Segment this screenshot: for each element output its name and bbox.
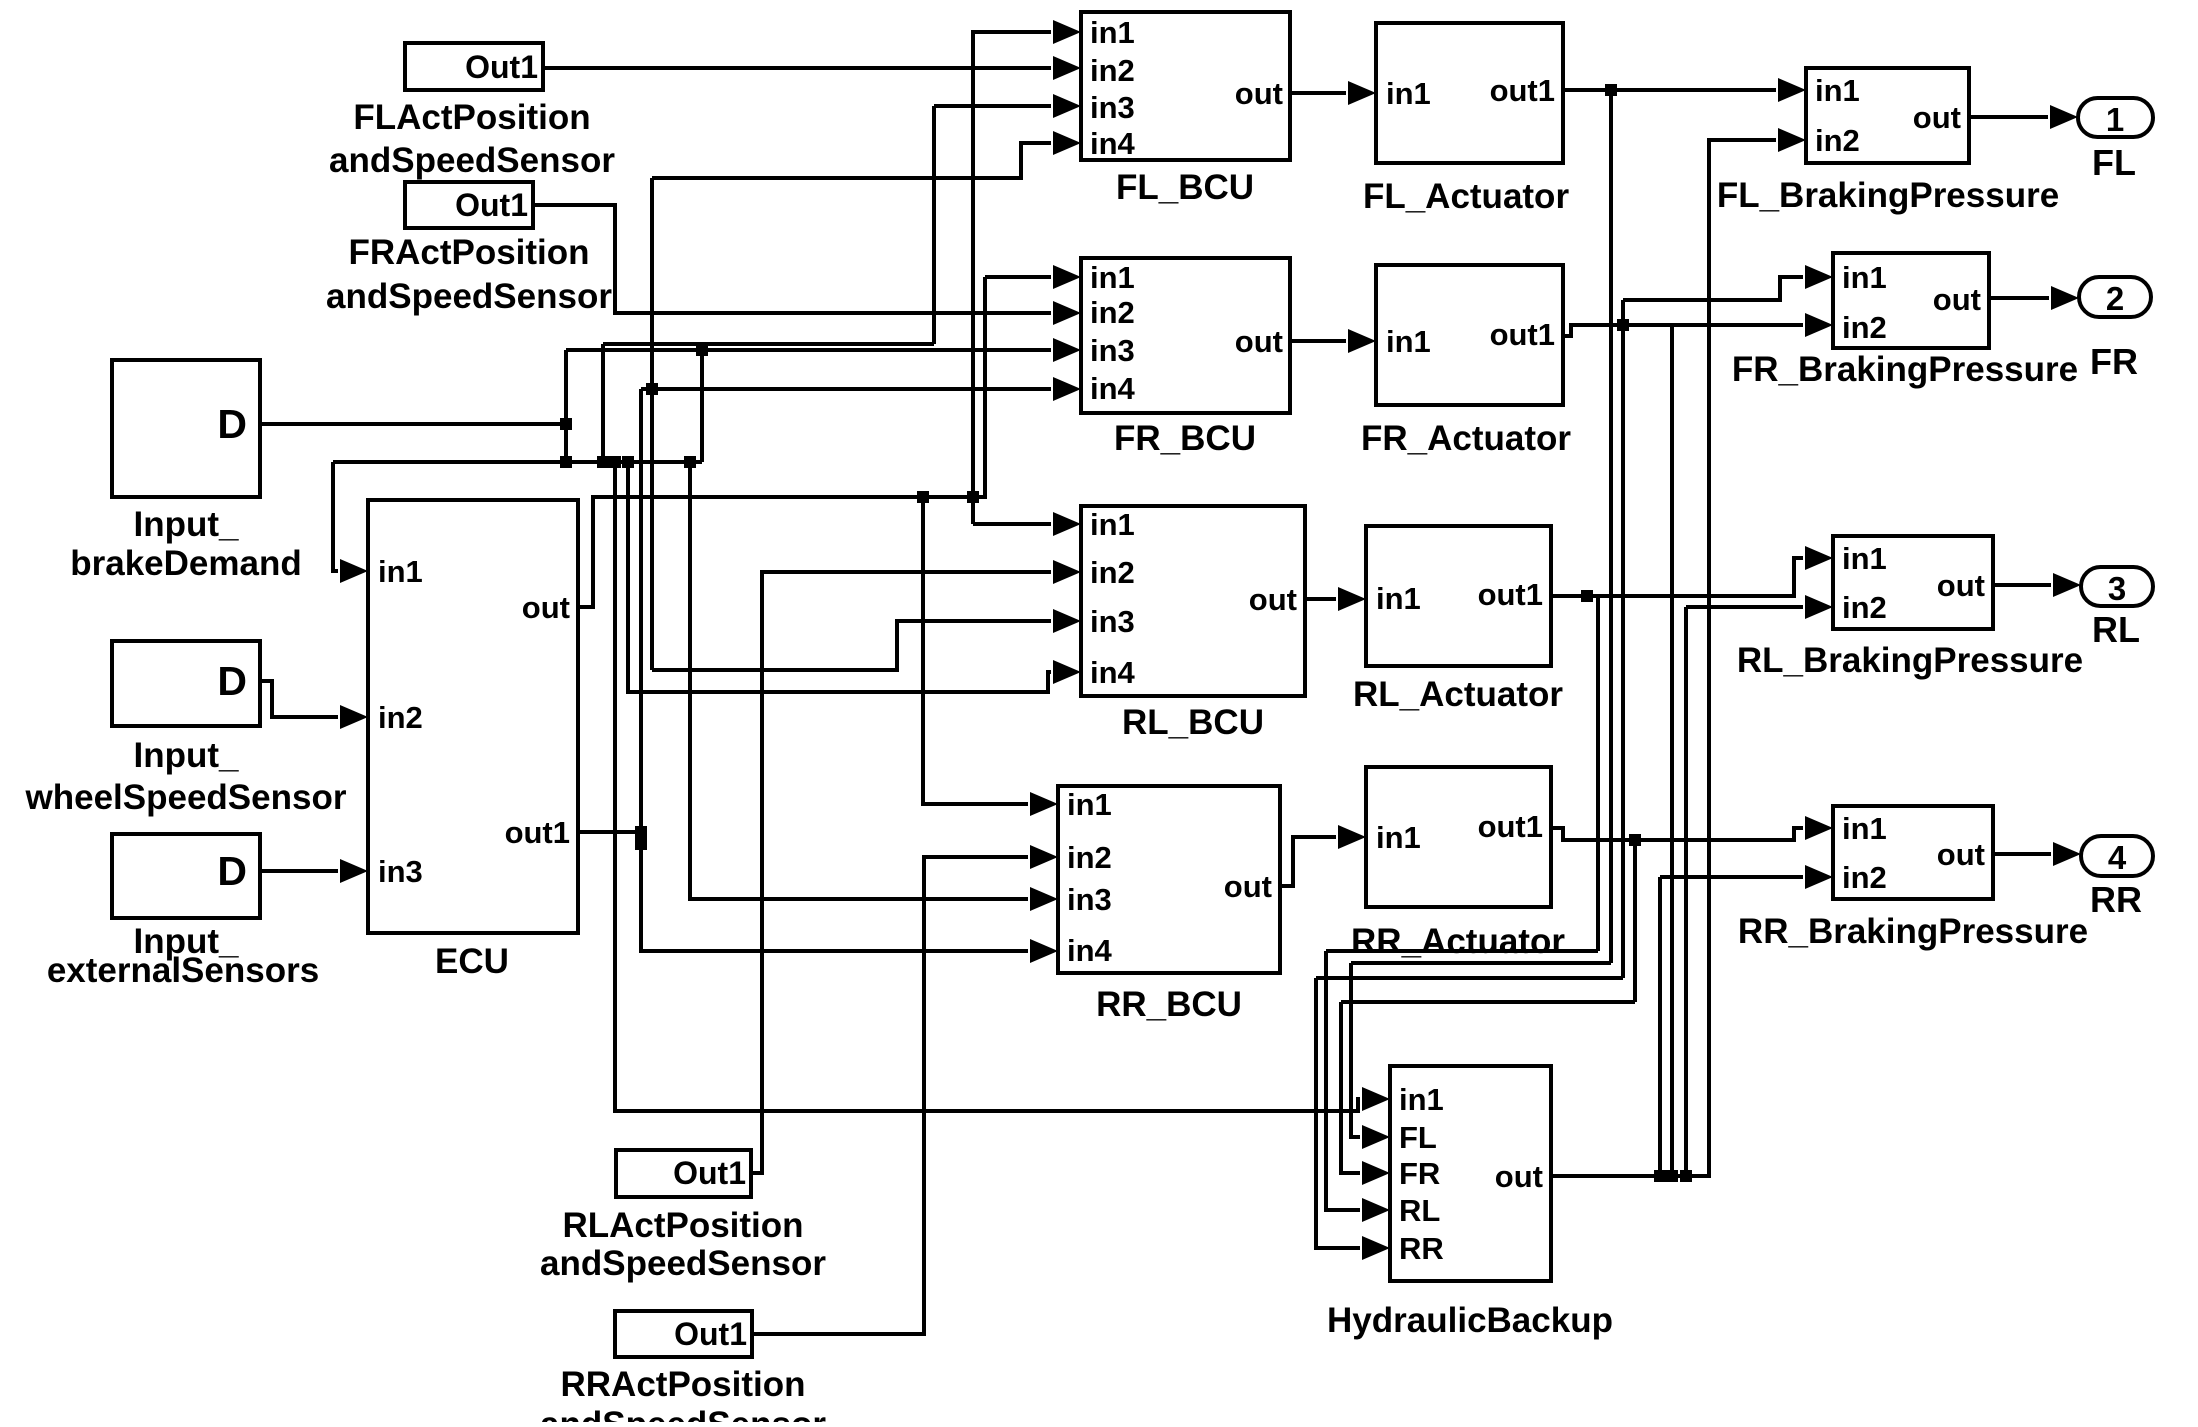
svg-text:in4: in4 xyxy=(1090,371,1136,406)
svg-text:FL_Actuator: FL_Actuator xyxy=(1363,177,1570,216)
svg-text:FL: FL xyxy=(2092,142,2136,183)
svg-text:in2: in2 xyxy=(1090,295,1135,330)
svg-text:RRActPosition: RRActPosition xyxy=(561,1365,806,1404)
svg-text:FRActPosition: FRActPosition xyxy=(348,233,589,272)
svg-text:in4: in4 xyxy=(1067,933,1113,968)
svg-text:in3: in3 xyxy=(1090,333,1135,368)
svg-text:D: D xyxy=(217,401,247,447)
svg-text:out: out xyxy=(1235,324,1283,359)
svg-text:D: D xyxy=(217,848,247,894)
svg-text:FL_BCU: FL_BCU xyxy=(1116,168,1254,207)
svg-text:FLActPosition: FLActPosition xyxy=(353,98,590,137)
svg-text:in2: in2 xyxy=(1067,840,1112,875)
svg-text:out: out xyxy=(522,590,570,625)
svg-text:RL: RL xyxy=(1399,1193,1440,1228)
svg-text:in1: in1 xyxy=(1090,507,1135,542)
svg-text:in1: in1 xyxy=(1842,541,1887,576)
svg-text:in1: in1 xyxy=(1090,260,1135,295)
svg-text:3: 3 xyxy=(2108,570,2126,607)
svg-text:FR: FR xyxy=(2090,341,2138,382)
svg-text:in2: in2 xyxy=(378,700,423,735)
svg-text:in2: in2 xyxy=(1842,590,1887,625)
svg-text:in3: in3 xyxy=(1090,90,1135,125)
svg-text:out: out xyxy=(1249,582,1297,617)
svg-text:RL_BCU: RL_BCU xyxy=(1122,703,1264,742)
svg-text:in1: in1 xyxy=(1090,15,1135,50)
svg-text:RR_BrakingPressure: RR_BrakingPressure xyxy=(1738,912,2088,951)
svg-text:andSpeedSensor: andSpeedSensor xyxy=(329,141,615,180)
svg-text:andSpeedSensor: andSpeedSensor xyxy=(326,277,612,316)
svg-text:in2: in2 xyxy=(1090,555,1135,590)
svg-text:FR_BCU: FR_BCU xyxy=(1114,419,1256,458)
svg-text:Out1: Out1 xyxy=(465,49,538,85)
svg-text:Out1: Out1 xyxy=(674,1316,747,1352)
svg-text:brakeDemand: brakeDemand xyxy=(70,544,301,583)
svg-text:in4: in4 xyxy=(1090,126,1136,161)
svg-text:out: out xyxy=(1913,100,1961,135)
svg-text:FL: FL xyxy=(1399,1120,1437,1155)
svg-text:out1: out1 xyxy=(505,815,570,850)
svg-text:in3: in3 xyxy=(1090,604,1135,639)
svg-text:out: out xyxy=(1937,837,1985,872)
svg-text:in1: in1 xyxy=(1067,787,1112,822)
svg-text:Input_: Input_ xyxy=(134,505,240,544)
svg-text:RL_Actuator: RL_Actuator xyxy=(1353,675,1563,714)
svg-text:out: out xyxy=(1933,282,1981,317)
svg-text:in2: in2 xyxy=(1815,123,1860,158)
svg-text:in1: in1 xyxy=(1399,1082,1444,1117)
svg-text:ECU: ECU xyxy=(435,942,509,981)
svg-text:out1: out1 xyxy=(1478,809,1543,844)
svg-text:in3: in3 xyxy=(1067,882,1112,917)
svg-text:in1: in1 xyxy=(1386,76,1431,111)
svg-text:Input_: Input_ xyxy=(134,736,240,775)
svg-text:HydraulicBackup: HydraulicBackup xyxy=(1327,1301,1613,1340)
svg-text:Out1: Out1 xyxy=(455,187,528,223)
svg-text:out: out xyxy=(1224,869,1272,904)
svg-text:wheelSpeedSensor: wheelSpeedSensor xyxy=(25,778,347,817)
svg-text:out1: out1 xyxy=(1478,577,1543,612)
svg-text:in1: in1 xyxy=(1842,260,1887,295)
svg-text:in1: in1 xyxy=(378,554,423,589)
svg-text:in1: in1 xyxy=(1815,73,1860,108)
svg-text:out: out xyxy=(1937,568,1985,603)
svg-text:RR_Actuator: RR_Actuator xyxy=(1351,922,1565,961)
svg-text:in3: in3 xyxy=(378,854,423,889)
svg-text:D: D xyxy=(217,658,247,704)
svg-text:out: out xyxy=(1495,1159,1543,1194)
svg-text:RR_BCU: RR_BCU xyxy=(1096,985,1242,1024)
svg-text:out1: out1 xyxy=(1490,317,1555,352)
svg-text:1: 1 xyxy=(2106,101,2124,138)
svg-text:in2: in2 xyxy=(1090,53,1135,88)
svg-text:RL: RL xyxy=(2092,609,2140,650)
svg-text:4: 4 xyxy=(2108,839,2127,876)
svg-text:RL_BrakingPressure: RL_BrakingPressure xyxy=(1737,641,2083,680)
svg-text:FL_BrakingPressure: FL_BrakingPressure xyxy=(1717,176,2059,215)
svg-text:in1: in1 xyxy=(1376,820,1421,855)
svg-text:in2: in2 xyxy=(1842,860,1887,895)
svg-text:in4: in4 xyxy=(1090,655,1136,690)
svg-text:RR: RR xyxy=(2090,879,2142,920)
svg-text:FR_Actuator: FR_Actuator xyxy=(1361,419,1571,458)
svg-text:in1: in1 xyxy=(1376,581,1421,616)
svg-text:andSpeedSensor: andSpeedSensor xyxy=(540,1244,826,1283)
svg-text:RLActPosition: RLActPosition xyxy=(562,1206,803,1245)
svg-text:FR_BrakingPressure: FR_BrakingPressure xyxy=(1732,350,2078,389)
svg-text:Out1: Out1 xyxy=(673,1155,746,1191)
svg-text:in2: in2 xyxy=(1842,310,1887,345)
svg-text:RR: RR xyxy=(1399,1231,1444,1266)
svg-text:in1: in1 xyxy=(1842,811,1887,846)
svg-text:in1: in1 xyxy=(1386,324,1431,359)
svg-text:FR: FR xyxy=(1399,1156,1440,1191)
svg-text:andSpeedSensor: andSpeedSensor xyxy=(540,1405,826,1422)
svg-text:externalSensors: externalSensors xyxy=(47,951,319,990)
svg-text:2: 2 xyxy=(2106,280,2124,317)
svg-text:out: out xyxy=(1235,76,1283,111)
svg-text:out1: out1 xyxy=(1490,73,1555,108)
